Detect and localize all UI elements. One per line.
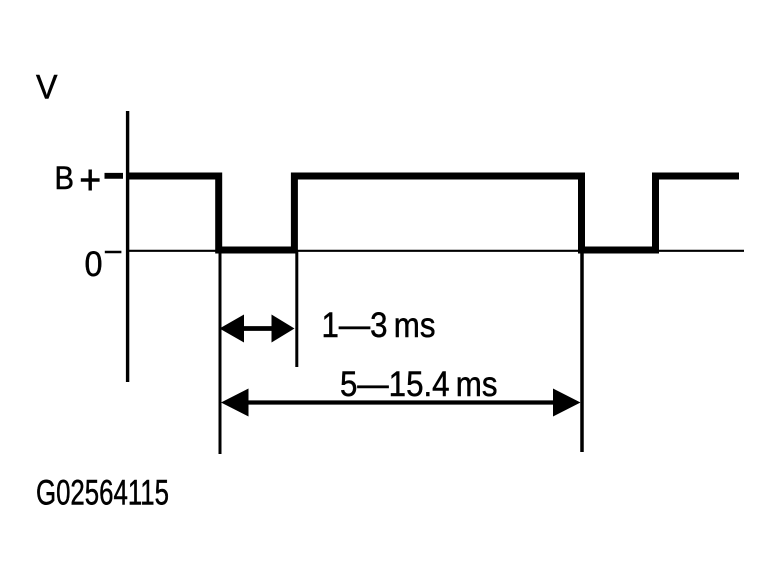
axis V (vertical voltage axis line) bbox=[126, 111, 129, 382]
svg-text:1—3 ms: 1—3 ms bbox=[322, 305, 436, 345]
svg-text:0: 0 bbox=[85, 245, 103, 284]
extension line at second rising edge bbox=[295, 250, 298, 367]
extension line at second falling edge bbox=[580, 250, 584, 452]
svg-text:G02564115: G02564115 bbox=[36, 474, 169, 513]
plus sign of B+ bbox=[88, 170, 91, 191]
dimension arrow 5-15.4 ms (double-headed) bbox=[242, 400, 558, 404]
extension line at first falling edge bbox=[219, 250, 222, 454]
dimension arrow 1-3 ms (double-headed) bbox=[238, 326, 278, 331]
svg-text:V: V bbox=[36, 68, 58, 106]
tick 0 level bbox=[105, 251, 122, 254]
waveform trace (square wave B+ / 0) bbox=[126, 176, 739, 250]
time axis (thin zero-level line) bbox=[128, 250, 744, 252]
svg-text:5—15.4 ms: 5—15.4 ms bbox=[340, 364, 498, 404]
tick B+ level bbox=[105, 173, 124, 179]
svg-text:B: B bbox=[55, 160, 75, 196]
